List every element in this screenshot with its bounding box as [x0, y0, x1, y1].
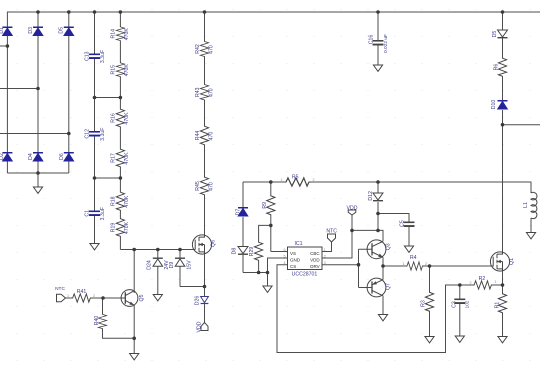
svg-text:R16: R16 [110, 113, 116, 123]
svg-text:Q1: Q1 [509, 258, 515, 265]
svg-text:D5: D5 [59, 27, 65, 34]
svg-text:VDD: VDD [196, 321, 202, 332]
svg-text:Q5: Q5 [139, 294, 145, 301]
svg-text:3.3uF: 3.3uF [100, 207, 106, 220]
svg-text:D8: D8 [232, 248, 238, 255]
svg-text:R42: R42 [195, 44, 201, 54]
svg-text:2: 2 [313, 178, 315, 182]
svg-text:R1: R1 [495, 302, 501, 309]
svg-text:D3: D3 [28, 27, 34, 34]
svg-text:3: 3 [324, 261, 326, 265]
svg-text:D6: D6 [59, 153, 65, 160]
svg-text:4: 4 [283, 261, 285, 265]
svg-text:UCC28701: UCC28701 [292, 272, 318, 278]
svg-text:NTC: NTC [326, 229, 337, 235]
svg-text:IC1: IC1 [294, 241, 302, 247]
svg-text:470K: 470K [124, 112, 130, 125]
svg-text:1: 1 [495, 280, 497, 284]
svg-text:VDD: VDD [347, 206, 358, 212]
svg-text:C16: C16 [368, 35, 374, 45]
svg-text:R2: R2 [479, 276, 486, 282]
svg-text:D5: D5 [492, 31, 498, 38]
svg-text:1: 1 [67, 294, 69, 298]
svg-text:CS: CS [290, 264, 296, 269]
svg-text:470K: 470K [124, 195, 130, 208]
svg-text:D26: D26 [194, 296, 200, 306]
svg-text:3.3uF: 3.3uF [100, 50, 106, 63]
svg-text:D4: D4 [28, 153, 34, 160]
svg-text:D10: D10 [491, 100, 497, 110]
svg-text:R6: R6 [493, 64, 499, 71]
svg-text:VDD: VDD [310, 257, 320, 262]
svg-text:R4: R4 [410, 255, 417, 261]
svg-text:D9: D9 [169, 262, 175, 269]
svg-text:R14: R14 [110, 29, 116, 39]
svg-text:R40: R40 [94, 316, 100, 326]
svg-text:5: 5 [283, 255, 285, 259]
svg-text:DRV: DRV [310, 264, 319, 269]
svg-text:470K: 470K [124, 28, 130, 41]
svg-text:D1: D1 [0, 27, 5, 34]
svg-text:D2: D2 [0, 153, 5, 160]
svg-text:470K: 470K [124, 64, 130, 77]
svg-text:CBC: CBC [310, 251, 320, 256]
svg-text:Q6: Q6 [211, 240, 217, 247]
svg-text:2: 2 [324, 255, 326, 259]
svg-text:R5: R5 [292, 175, 299, 181]
svg-text:470K: 470K [124, 152, 130, 165]
svg-text:Q7: Q7 [385, 283, 391, 290]
svg-text:2: 2 [470, 281, 472, 285]
svg-text:R43: R43 [195, 87, 201, 97]
svg-text:R18: R18 [110, 196, 116, 206]
svg-text:Q3: Q3 [385, 243, 391, 250]
svg-text:D12: D12 [368, 191, 374, 201]
svg-text:D7: D7 [236, 209, 242, 216]
svg-text:6: 6 [283, 248, 285, 252]
svg-text:470: 470 [209, 132, 215, 141]
svg-text:VS: VS [290, 251, 296, 256]
svg-text:R17: R17 [110, 153, 116, 163]
svg-text:C3: C3 [452, 301, 458, 308]
svg-text:0.022 uF: 0.022 uF [383, 34, 389, 53]
svg-text:R3: R3 [420, 300, 426, 307]
svg-text:R41: R41 [77, 289, 87, 295]
svg-text:NTC: NTC [55, 286, 65, 292]
svg-text:15V: 15V [186, 260, 192, 270]
svg-text:D24: D24 [147, 260, 153, 270]
svg-text:R45: R45 [195, 181, 201, 191]
svg-text:470K: 470K [124, 221, 130, 234]
svg-text:1: 1 [324, 248, 326, 252]
svg-text:R9: R9 [262, 202, 268, 209]
svg-text:470: 470 [209, 182, 215, 191]
svg-text:R29: R29 [249, 247, 255, 257]
svg-text:C13: C13 [85, 51, 91, 61]
svg-text:L1: L1 [523, 202, 529, 208]
svg-text:C5: C5 [400, 220, 406, 227]
svg-text:C1: C1 [85, 210, 91, 217]
svg-text:3.3uF: 3.3uF [100, 128, 106, 141]
svg-text:R44: R44 [195, 131, 201, 141]
svg-text:1: 1 [403, 262, 405, 266]
svg-text:GND: GND [290, 257, 301, 262]
svg-text:102: 102 [465, 300, 470, 308]
svg-text:2: 2 [93, 294, 95, 298]
svg-text:C12: C12 [85, 129, 91, 139]
svg-text:1: 1 [281, 178, 283, 182]
svg-text:R19: R19 [110, 223, 116, 233]
svg-text:470: 470 [209, 45, 215, 54]
svg-text:R15: R15 [110, 65, 116, 75]
svg-text:470: 470 [209, 88, 215, 97]
svg-text:2: 2 [425, 262, 427, 266]
